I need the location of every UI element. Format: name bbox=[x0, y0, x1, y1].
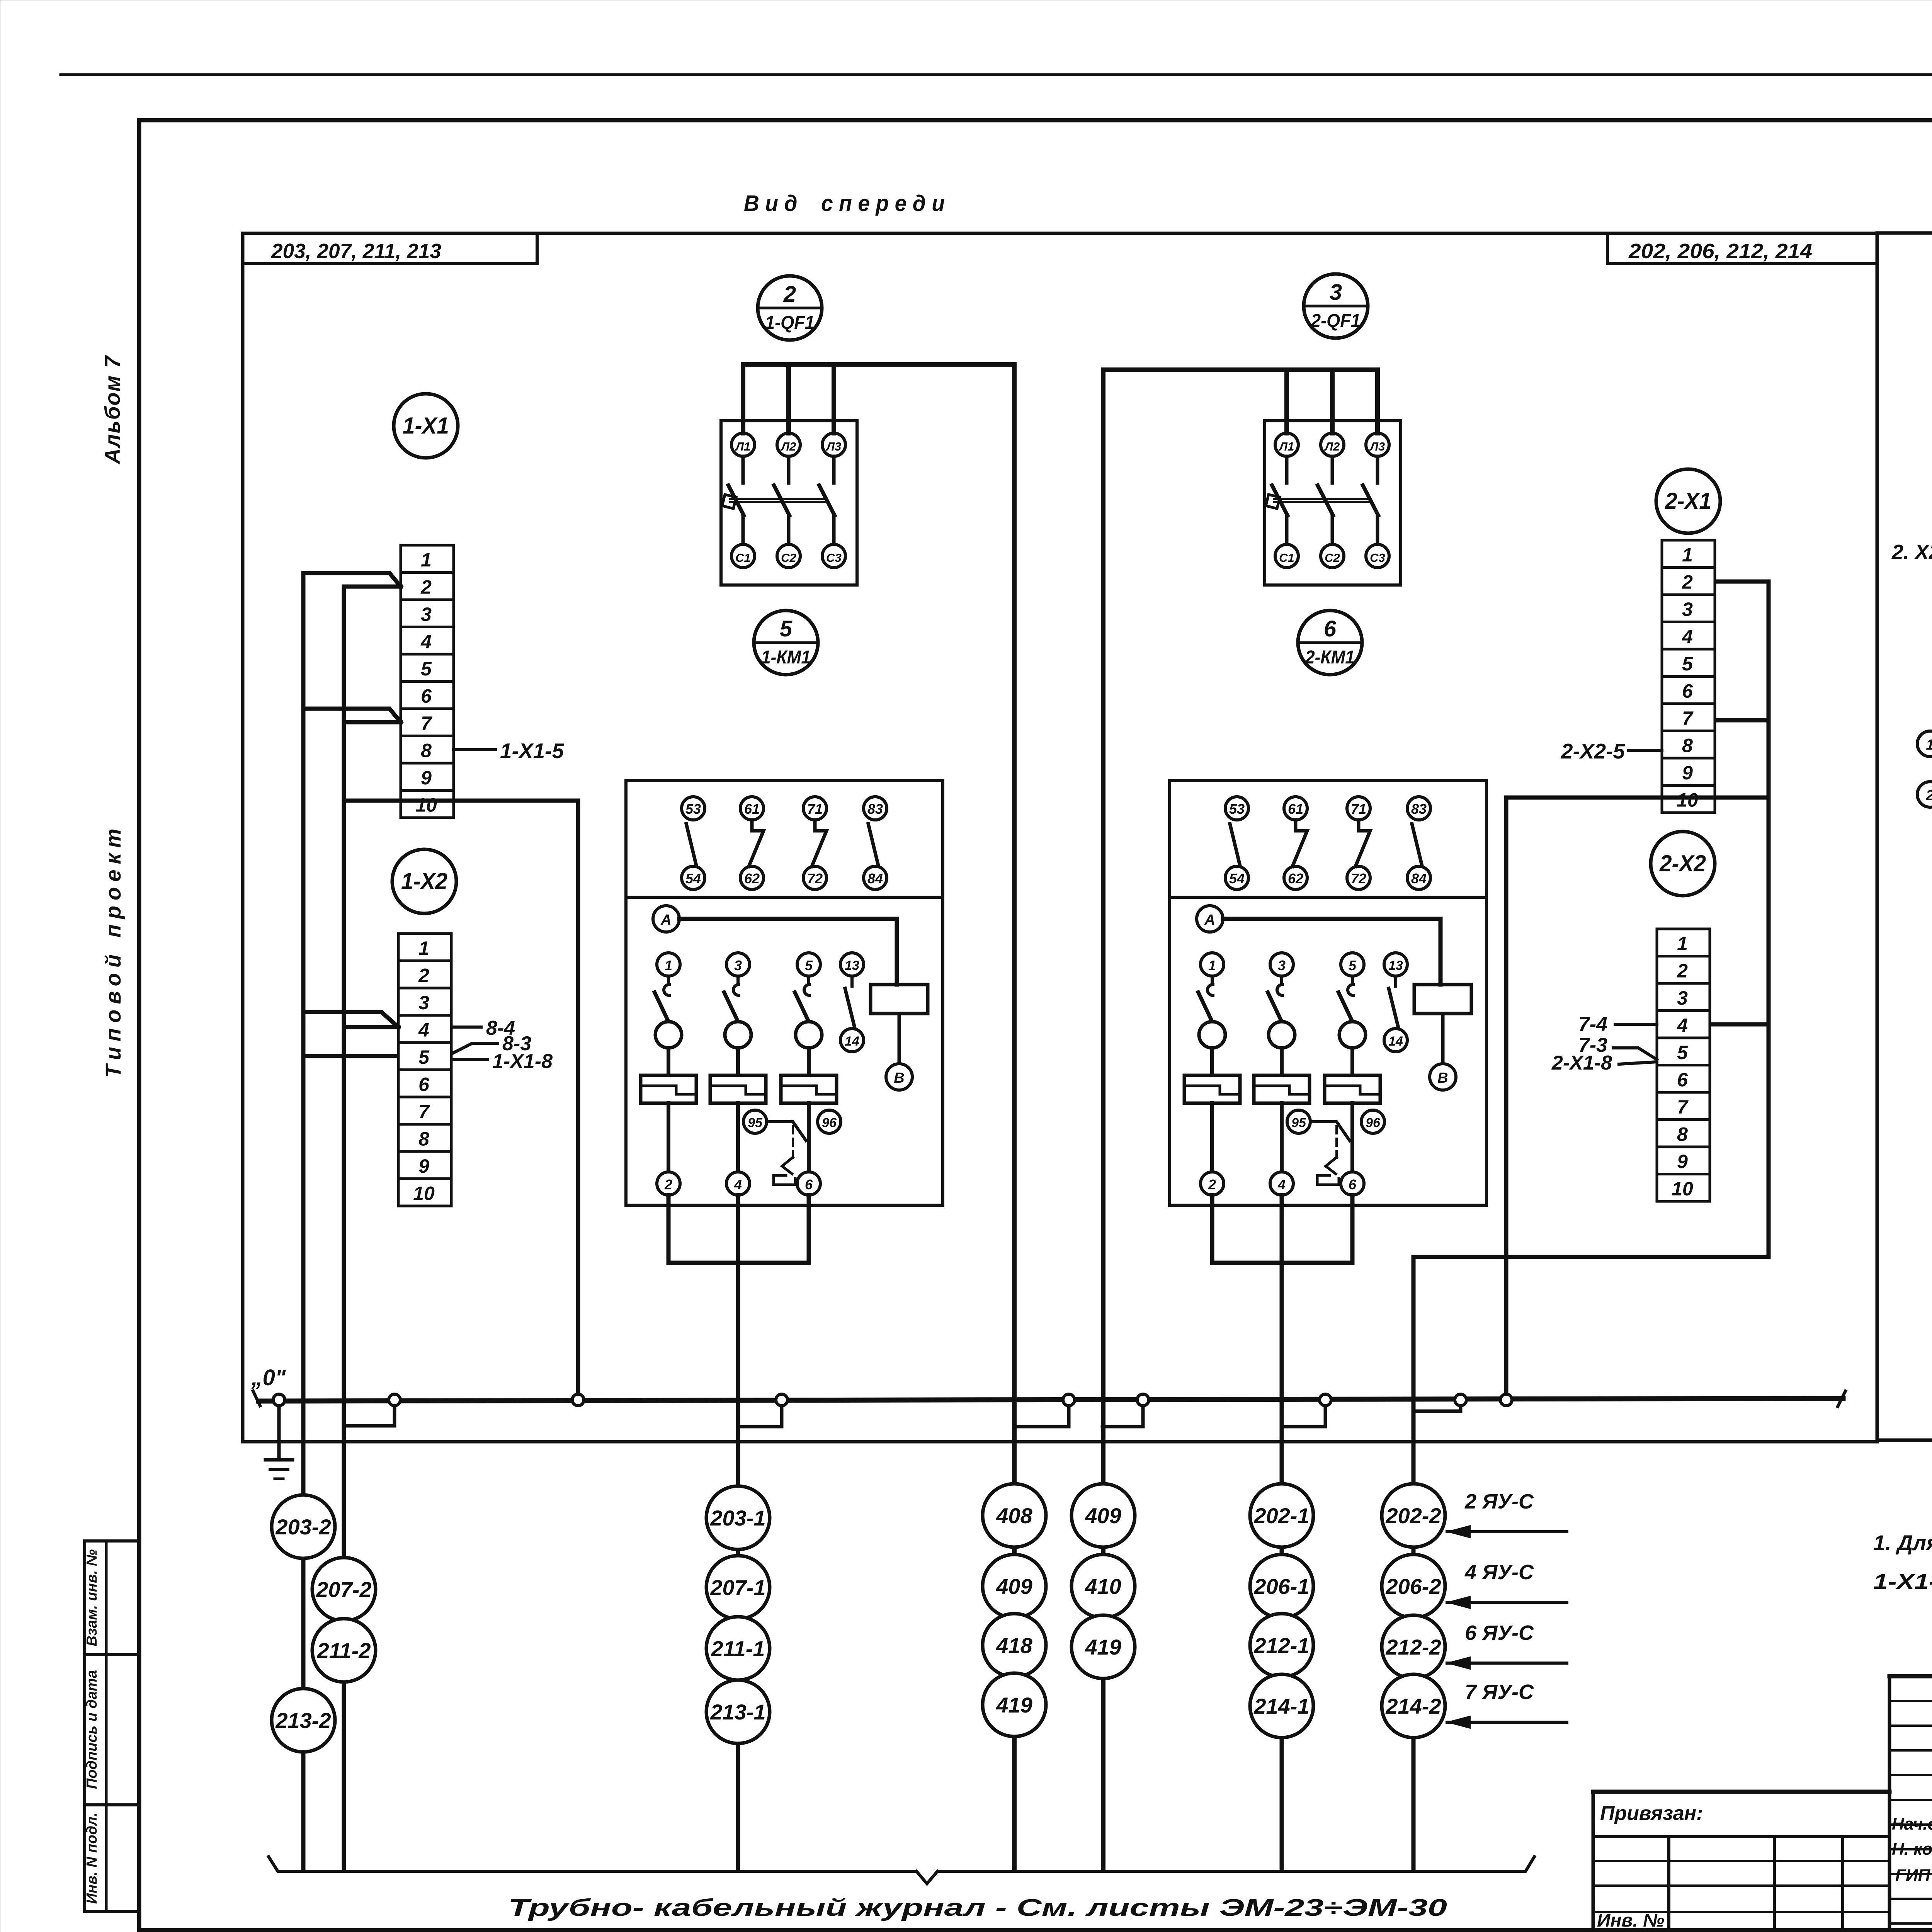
svg-text:1-QF1: 1-QF1 bbox=[765, 313, 815, 333]
svg-text:9: 9 bbox=[418, 1155, 429, 1177]
wire hook into 1-X2-4 bbox=[303, 1012, 398, 1027]
svg-text:Н. контр: Н. контр bbox=[1892, 1840, 1932, 1859]
cable circle 214-2 bbox=[1382, 1674, 1445, 1738]
svg-text:1: 1 bbox=[1926, 737, 1932, 753]
svg-text:207-1: 207-1 bbox=[710, 1575, 765, 1600]
svg-text:83: 83 bbox=[867, 801, 883, 817]
svg-text:7: 7 bbox=[1677, 1096, 1689, 1118]
svg-text:7: 7 bbox=[1682, 707, 1694, 729]
svg-text:202, 206, 212, 214: 202, 206, 212, 214 bbox=[1628, 240, 1812, 263]
svg-text:202-2: 202-2 bbox=[1385, 1503, 1441, 1528]
svg-text:4: 4 bbox=[1277, 1177, 1286, 1192]
svg-text:10: 10 bbox=[1677, 789, 1698, 811]
svg-text:410: 410 bbox=[1085, 1574, 1121, 1599]
terminal block label circle 2-X1 bbox=[1656, 469, 1720, 533]
svg-text:408: 408 bbox=[996, 1503, 1032, 1528]
svg-text:13: 13 bbox=[845, 958, 859, 973]
svg-text:Альбом 7: Альбом 7 bbox=[100, 355, 124, 464]
svg-text:61: 61 bbox=[1288, 801, 1303, 817]
svg-text:5: 5 bbox=[421, 658, 432, 680]
cable circle 206-1 bbox=[1250, 1554, 1313, 1618]
svg-text:2: 2 bbox=[1682, 571, 1693, 593]
neutral bus 0 bbox=[259, 1398, 1843, 1401]
svg-text:А: А bbox=[1204, 912, 1215, 928]
cable circle 212-1 bbox=[1250, 1614, 1313, 1677]
svg-text:3: 3 bbox=[1278, 957, 1286, 973]
svg-text:10: 10 bbox=[415, 794, 437, 816]
cable circle 419 bbox=[1071, 1615, 1135, 1679]
wire 1-QF1 L3 drop bbox=[832, 364, 836, 433]
svg-text:„0": „0" bbox=[251, 1365, 286, 1390]
svg-text:72: 72 bbox=[807, 871, 823, 886]
svg-text:203-1: 203-1 bbox=[710, 1506, 765, 1530]
svg-text:2-Х1: 2-Х1 bbox=[1665, 488, 1711, 514]
svg-text:2: 2 bbox=[420, 577, 432, 598]
svg-text:А: А bbox=[660, 912, 671, 928]
svg-text:4 ЯУ-С: 4 ЯУ-С bbox=[1464, 1561, 1534, 1584]
svg-text:Взам. инв. №: Взам. инв. № bbox=[84, 1549, 100, 1646]
svg-text:4: 4 bbox=[734, 1177, 742, 1192]
svg-text:1-Х1-8 и 1-Х2-5 не устанав: 1-Х1-8 и 1-Х2-5 не устанавливать bbox=[1873, 1569, 1932, 1594]
svg-text:1: 1 bbox=[421, 549, 432, 571]
svg-text:С2: С2 bbox=[781, 551, 796, 565]
svg-text:206-2: 206-2 bbox=[1385, 1574, 1441, 1599]
svg-text:ГИП: ГИП bbox=[1895, 1866, 1931, 1885]
svg-text:5: 5 bbox=[1677, 1042, 1688, 1063]
svg-text:5: 5 bbox=[1349, 957, 1357, 973]
terminal strip 1-X2 bbox=[398, 934, 451, 1206]
svg-text:14: 14 bbox=[1388, 1034, 1403, 1049]
svg-text:1-КМ1: 1-КМ1 bbox=[761, 647, 811, 668]
svg-text:2-Х2: 2-Х2 bbox=[1659, 850, 1706, 876]
wire 2-QF1 L2 drop bbox=[1330, 370, 1335, 433]
svg-text:84: 84 bbox=[867, 871, 883, 886]
cable circle 213-1 bbox=[706, 1680, 770, 1743]
cable circle 409 bbox=[983, 1554, 1046, 1618]
svg-text:6: 6 bbox=[1324, 616, 1337, 641]
terminal strip 2-X2 bbox=[1657, 929, 1710, 1201]
bus from 1-QF1 to cable 408 column bbox=[743, 364, 1014, 1869]
svg-text:2: 2 bbox=[783, 282, 796, 307]
label 2-X1-8 leader bbox=[1619, 1062, 1657, 1064]
svg-text:Л2: Л2 bbox=[1324, 440, 1340, 453]
cable circle 214-1 bbox=[1250, 1674, 1313, 1738]
callout circle 6 / 2-KM1 bbox=[1298, 611, 1362, 675]
svg-text:1. Для приводов 203, 213 перем: 1. Для приводов 203, 213 перемычку между… bbox=[1873, 1531, 1932, 1555]
cable circle 213-2 bbox=[272, 1689, 335, 1752]
cable circle 206-2 bbox=[1382, 1554, 1445, 1618]
svg-text:212-1: 212-1 bbox=[1253, 1633, 1309, 1658]
svg-text:409: 409 bbox=[996, 1574, 1032, 1599]
svg-text:3: 3 bbox=[1677, 987, 1688, 1009]
callout circle 3 / 2-QF1 bbox=[1304, 274, 1368, 338]
wire left drop from 2-X1-10 to 0-bus bbox=[1504, 798, 1509, 1399]
svg-text:409: 409 bbox=[1085, 1503, 1121, 1528]
cable circle 211-1 bbox=[706, 1617, 770, 1680]
cable column 202-2 wire drop bbox=[1412, 1257, 1416, 1869]
wire B vertical (cables 207-2/211-2) bbox=[342, 587, 346, 1869]
cable circle 203-2 bbox=[272, 1495, 335, 1558]
svg-text:5: 5 bbox=[1682, 653, 1693, 675]
svg-text:В: В bbox=[1437, 1070, 1448, 1086]
svg-text:10: 10 bbox=[1672, 1178, 1693, 1200]
svg-text:1-Х1-5: 1-Х1-5 bbox=[500, 739, 564, 763]
cable circle 419 bbox=[983, 1673, 1046, 1736]
label 7-4 leader bbox=[1615, 1023, 1657, 1026]
svg-text:6: 6 bbox=[1682, 680, 1693, 702]
svg-text:95: 95 bbox=[1291, 1116, 1306, 1130]
margin stamp box vzam inv no bbox=[85, 1541, 139, 1655]
label 2-X2-5 leader bbox=[1629, 749, 1662, 752]
svg-text:1: 1 bbox=[1677, 933, 1688, 954]
svg-text:203, 207, 211, 213: 203, 207, 211, 213 bbox=[271, 240, 441, 263]
svg-text:53: 53 bbox=[1229, 801, 1245, 817]
svg-text:4: 4 bbox=[1682, 626, 1693, 648]
title block grid bbox=[1593, 1676, 1932, 1930]
svg-text:206-1: 206-1 bbox=[1253, 1574, 1309, 1599]
svg-text:С2: С2 bbox=[1325, 551, 1340, 565]
svg-text:В: В bbox=[894, 1070, 904, 1086]
cable journal bracket line bbox=[269, 1857, 917, 1871]
svg-text:6 ЯУ-С: 6 ЯУ-С bbox=[1465, 1621, 1534, 1645]
svg-text:6: 6 bbox=[805, 1177, 813, 1192]
bus junction nodes and taps bbox=[344, 1400, 1461, 1427]
svg-text:С1: С1 bbox=[735, 551, 751, 565]
svg-text:2: 2 bbox=[1677, 960, 1688, 982]
svg-text:214-1: 214-1 bbox=[1253, 1694, 1309, 1718]
svg-text:2-QF1: 2-QF1 bbox=[1311, 311, 1361, 331]
callout circle 5 / 1-KM1 bbox=[754, 611, 818, 675]
svg-text:3: 3 bbox=[421, 604, 432, 625]
circuit breaker 2-QF1 bbox=[1265, 421, 1401, 585]
svg-text:8: 8 bbox=[421, 740, 432, 762]
svg-text:5: 5 bbox=[780, 616, 793, 641]
svg-text:3: 3 bbox=[1330, 280, 1342, 305]
svg-text:71: 71 bbox=[807, 801, 823, 817]
svg-text:1: 1 bbox=[1208, 957, 1216, 973]
svg-text:211-1: 211-1 bbox=[711, 1636, 765, 1661]
svg-text:72: 72 bbox=[1351, 871, 1366, 886]
wire drop to 0-bus right of 1-X1 bbox=[576, 801, 580, 1401]
cable circle 202-1 bbox=[1250, 1484, 1313, 1547]
cable circle 202-2 bbox=[1382, 1484, 1445, 1547]
svg-text:С3: С3 bbox=[826, 551, 842, 565]
svg-text:6: 6 bbox=[418, 1074, 430, 1095]
svg-text:62: 62 bbox=[744, 871, 760, 886]
cable circle 207-2 bbox=[312, 1558, 376, 1621]
svg-text:2-КМ1: 2-КМ1 bbox=[1305, 647, 1355, 668]
lamp circuit 2-HLR1 bbox=[1917, 727, 1932, 807]
svg-text:7 ЯУ-С: 7 ЯУ-С bbox=[1465, 1680, 1534, 1704]
contactor 1-KM1 bbox=[626, 781, 943, 1205]
svg-text:1-Х2: 1-Х2 bbox=[401, 868, 447, 894]
svg-text:13: 13 bbox=[1388, 958, 1403, 973]
svg-text:6: 6 bbox=[421, 685, 432, 707]
svg-text:В и д с п е р е д и: В и д с п е р е д и bbox=[744, 191, 945, 216]
label 1-X1-5 leader bbox=[454, 748, 495, 751]
svg-text:Нач.отд: Нач.отд bbox=[1892, 1815, 1932, 1833]
svg-text:4: 4 bbox=[1677, 1015, 1688, 1036]
label 7-3 leader bbox=[1613, 1048, 1657, 1060]
svg-text:2-Х1-8: 2-Х1-8 bbox=[1551, 1052, 1612, 1074]
svg-text:3: 3 bbox=[734, 957, 742, 973]
wires 1-KM1 motor terminals 2-4-6 to cable bbox=[668, 1195, 809, 1263]
cabinet door box bbox=[1877, 233, 1932, 1440]
svg-text:Типовой проект: Типовой проект bbox=[101, 823, 125, 1078]
svg-text:Инв. N подл.: Инв. N подл. bbox=[84, 1813, 100, 1904]
svg-text:54: 54 bbox=[685, 871, 701, 886]
cable circle 212-2 bbox=[1382, 1615, 1445, 1679]
terminal block label circle 1-X1 bbox=[394, 394, 458, 458]
svg-text:2: 2 bbox=[1208, 1177, 1216, 1192]
cable circle 410 bbox=[1071, 1554, 1135, 1618]
svg-text:53: 53 bbox=[685, 801, 701, 817]
svg-text:84: 84 bbox=[1411, 871, 1427, 886]
wire A vertical (cables 203-2/213-2) bbox=[301, 573, 306, 1869]
svg-text:14: 14 bbox=[845, 1034, 859, 1049]
svg-text:213-2: 213-2 bbox=[275, 1708, 331, 1733]
svg-text:7: 7 bbox=[421, 713, 432, 734]
svg-text:Л3: Л3 bbox=[826, 440, 842, 453]
terminal strip 1-X1 bbox=[401, 545, 454, 818]
svg-text:203-2: 203-2 bbox=[275, 1515, 331, 1539]
wire through 2-X1-10 bbox=[1506, 796, 1769, 800]
junction circles on 0 bus bbox=[273, 1394, 1512, 1406]
svg-text:С1: С1 bbox=[1279, 551, 1294, 565]
label box 203 207 211 213 bbox=[243, 262, 537, 265]
callout circle 2 / 1-QF1 bbox=[758, 276, 822, 340]
svg-text:96: 96 bbox=[1366, 1116, 1381, 1130]
margin stamp box podpis i data bbox=[85, 1655, 139, 1805]
svg-text:9: 9 bbox=[1682, 762, 1693, 784]
cable circle 207-1 bbox=[706, 1556, 770, 1619]
svg-text:1: 1 bbox=[418, 937, 429, 959]
svg-text:2-Х2-5: 2-Х2-5 bbox=[1561, 739, 1625, 763]
svg-text:5: 5 bbox=[805, 957, 813, 973]
svg-text:202-1: 202-1 bbox=[1253, 1503, 1309, 1528]
svg-text:8: 8 bbox=[1682, 735, 1693, 757]
wire hook into 1-X1-7 bbox=[303, 709, 401, 722]
svg-text:С3: С3 bbox=[1370, 551, 1385, 565]
svg-text:2: 2 bbox=[1925, 787, 1932, 804]
svg-text:3: 3 bbox=[418, 992, 429, 1014]
cable destination labels YAU-S bbox=[1447, 1490, 1567, 1728]
svg-text:211-2: 211-2 bbox=[316, 1638, 371, 1663]
circuit breaker 1-QF1 bbox=[721, 421, 857, 585]
svg-text:4: 4 bbox=[418, 1019, 429, 1041]
svg-text:214-2: 214-2 bbox=[1385, 1694, 1441, 1718]
svg-text:9: 9 bbox=[1677, 1151, 1688, 1172]
terminal block label circle 2-X2 bbox=[1651, 832, 1715, 896]
svg-text:1-Х1: 1-Х1 bbox=[403, 413, 449, 439]
label 8-3 leader bbox=[452, 1043, 498, 1053]
cable circle 408 bbox=[983, 1484, 1046, 1547]
svg-text:10: 10 bbox=[413, 1183, 435, 1204]
svg-text:1: 1 bbox=[665, 957, 672, 973]
label 8-4 leader bbox=[452, 1026, 481, 1029]
wire hook into 1-X1-2 bbox=[303, 573, 401, 587]
ground symbol bbox=[277, 1401, 281, 1460]
svg-text:54: 54 bbox=[1229, 871, 1245, 886]
cabinet front-view box bbox=[243, 233, 1877, 1442]
svg-text:61: 61 bbox=[744, 801, 760, 817]
bus from 2-QF1 to cable 409 column bbox=[1103, 370, 1378, 1869]
svg-text:8: 8 bbox=[1677, 1124, 1688, 1145]
label box 202 206 212 214 bbox=[1607, 262, 1877, 265]
cable circle 418 bbox=[983, 1614, 1046, 1677]
svg-text:2 ЯУ-С: 2 ЯУ-С bbox=[1464, 1490, 1534, 1513]
cable circle 203-1 bbox=[706, 1486, 770, 1549]
svg-text:Л1: Л1 bbox=[735, 440, 751, 453]
svg-text:2: 2 bbox=[418, 965, 429, 986]
label 1-X1-8 leader bbox=[454, 1058, 488, 1061]
svg-text:419: 419 bbox=[1085, 1635, 1121, 1659]
svg-text:7: 7 bbox=[418, 1101, 430, 1122]
wire 2-QF1 L3 drop bbox=[1375, 370, 1380, 433]
svg-text:62: 62 bbox=[1288, 871, 1303, 886]
svg-text:2: 2 bbox=[664, 1177, 672, 1192]
svg-text:418: 418 bbox=[996, 1633, 1032, 1658]
svg-text:Привязан:: Привязан: bbox=[1600, 1802, 1703, 1825]
svg-text:213-1: 213-1 bbox=[710, 1700, 765, 1724]
svg-text:95: 95 bbox=[748, 1116, 763, 1130]
svg-text:7-4: 7-4 bbox=[1578, 1013, 1607, 1036]
svg-text:5: 5 bbox=[418, 1046, 430, 1068]
svg-text:207-2: 207-2 bbox=[316, 1577, 371, 1602]
margin stamp box inv no podl bbox=[85, 1805, 139, 1912]
svg-text:1: 1 bbox=[1682, 544, 1693, 566]
cable circle 409 bbox=[1071, 1484, 1135, 1547]
sheet outer border top bbox=[61, 73, 1932, 76]
svg-text:419: 419 bbox=[996, 1693, 1032, 1717]
terminal block label circle 1-X2 bbox=[392, 849, 456, 913]
wire into 1-X2-5 bbox=[303, 1054, 397, 1058]
svg-text:Л2: Л2 bbox=[781, 440, 796, 453]
wire through 1-X1-10 to node bbox=[344, 799, 578, 803]
wires 2-KM1 motor terminals 2-4-6 to cable bbox=[1212, 1195, 1352, 1263]
wire 2-X2-4 to bus bbox=[1713, 1022, 1769, 1027]
svg-text:Л3: Л3 bbox=[1369, 440, 1385, 453]
svg-text:8: 8 bbox=[418, 1128, 429, 1150]
svg-text:Инв. №: Инв. № bbox=[1597, 1910, 1664, 1931]
wire 2-X1-7 to bus bbox=[1716, 718, 1769, 723]
cable circle 211-2 bbox=[312, 1619, 376, 1682]
wire 2-X1-2 to bus bbox=[1716, 580, 1769, 584]
svg-text:9: 9 bbox=[421, 767, 432, 789]
contactor 2-KM1 bbox=[1170, 781, 1486, 1205]
svg-text:4: 4 bbox=[420, 631, 432, 653]
svg-text:83: 83 bbox=[1411, 801, 1427, 817]
wire 2-QF1 L1 drop bbox=[1284, 370, 1289, 433]
svg-text:1-Х1-8: 1-Х1-8 bbox=[492, 1050, 553, 1073]
svg-text:2. Х2-4: 2. Х2-4 bbox=[1891, 541, 1932, 564]
wire bus right of 2-X1/2-X2 bbox=[1767, 582, 1771, 1257]
svg-text:6: 6 bbox=[1677, 1069, 1688, 1091]
terminal strip 2-X1 bbox=[1662, 540, 1715, 813]
svg-text:71: 71 bbox=[1351, 801, 1366, 817]
svg-text:212-2: 212-2 bbox=[1385, 1635, 1441, 1659]
svg-text:Л1: Л1 bbox=[1279, 440, 1294, 453]
wire 1-QF1 L2 drop bbox=[786, 364, 791, 433]
svg-text:Трубно- кабельный журнал - См.: Трубно- кабельный журнал - См. листы ЭМ-… bbox=[508, 1895, 1447, 1921]
svg-text:Подпись и дата: Подпись и дата bbox=[84, 1670, 100, 1789]
wire bus bottom jog to cable 202-2 column bbox=[1413, 1255, 1769, 1259]
wire 1-QF1 L1 drop bbox=[741, 364, 745, 433]
svg-text:96: 96 bbox=[822, 1116, 837, 1130]
svg-text:6: 6 bbox=[1349, 1177, 1357, 1192]
svg-text:3: 3 bbox=[1682, 599, 1693, 620]
